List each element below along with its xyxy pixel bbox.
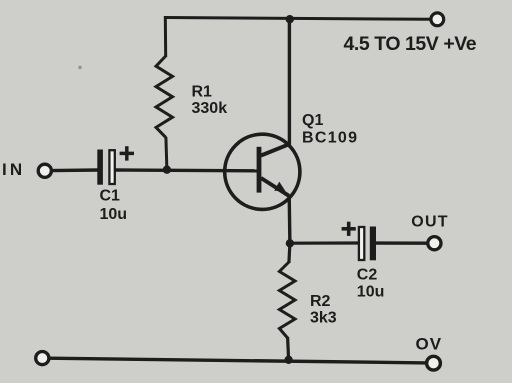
svg-text:IN: IN — [2, 160, 25, 179]
wire emitter — [288, 196, 292, 244]
svg-text:OUT: OUT — [411, 213, 448, 230]
wire top rail — [165, 18, 431, 20]
svg-text:3k3: 3k3 — [310, 309, 337, 326]
svg-text:Q1: Q1 — [302, 112, 323, 129]
transistor Q1 emitter arrow — [274, 182, 286, 192]
node emitter-rail junction — [284, 356, 292, 364]
capacitor C1 plate positive — [109, 150, 114, 184]
terminal OV — [427, 356, 441, 370]
svg-text:C1: C1 — [100, 187, 121, 204]
plus sign C1 — [120, 146, 134, 160]
transistor Q1 collector stroke — [261, 144, 289, 155]
svg-text:330k: 330k — [192, 100, 228, 117]
wire C2 to OUT — [376, 241, 428, 244]
plus sign C2 — [342, 222, 356, 236]
resistor R2 — [279, 262, 295, 338]
node base junction — [163, 166, 171, 174]
wire collector — [288, 19, 291, 145]
wire R1 top — [164, 16, 167, 57]
svg-text:BC109: BC109 — [302, 130, 358, 147]
wire R1 bottom — [166, 137, 167, 170]
terminal +V — [431, 13, 444, 26]
svg-text:C2: C2 — [357, 267, 378, 284]
transistor Q1 emitter stroke — [261, 178, 289, 196]
wire R2 bottom — [288, 337, 289, 360]
terminal IN — [38, 164, 51, 177]
wire R2 top — [289, 243, 290, 263]
svg-text:R1: R1 — [192, 84, 213, 101]
svg-text:OV: OV — [416, 334, 443, 353]
capacitor C2 plate positive — [359, 227, 364, 260]
capacitor C1 plate negative — [97, 150, 103, 185]
node emitter junction — [286, 239, 294, 247]
wire bottom rail — [49, 358, 427, 363]
transistor Q1 base bar — [257, 147, 262, 193]
capacitor C2 plate negative — [370, 227, 376, 261]
wire IN to C1 — [52, 168, 99, 172]
paper speck — [78, 66, 81, 69]
terminal OUT — [428, 237, 441, 250]
resistor R1 — [156, 56, 173, 138]
svg-text:4.5 TO 15V +Ve: 4.5 TO 15V +Ve — [344, 33, 477, 55]
node collector-rail junction — [286, 15, 294, 23]
svg-text:R2: R2 — [310, 293, 331, 310]
svg-text:10u: 10u — [100, 206, 128, 223]
svg-text:10u: 10u — [357, 284, 385, 301]
wire C1 to base — [115, 168, 257, 172]
wire emitter to C2 — [290, 241, 360, 244]
transistor Q1 body — [225, 134, 300, 209]
terminal ground left — [36, 352, 49, 365]
